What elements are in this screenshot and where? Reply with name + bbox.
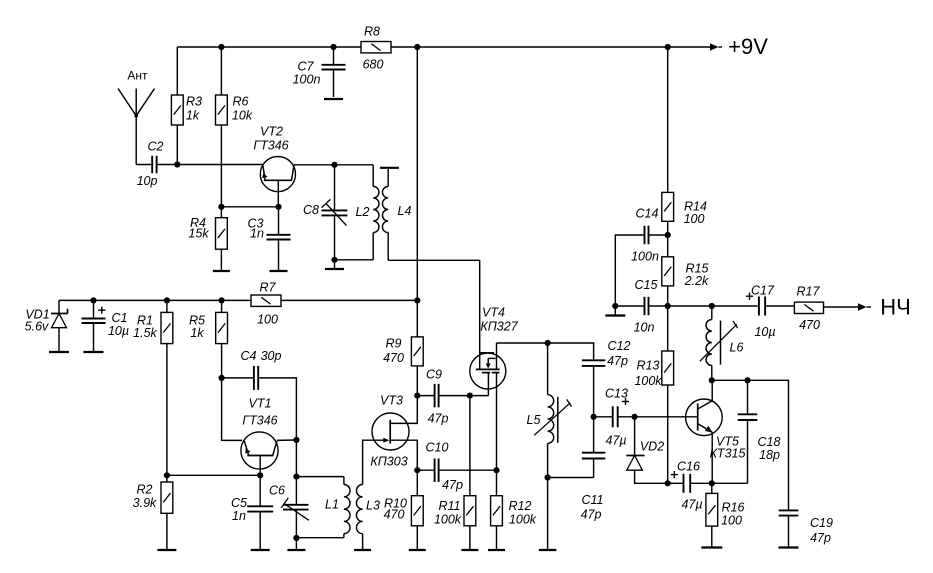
svg-text:L5: L5 (527, 413, 541, 427)
capacitor C5 1n (231, 475, 273, 550)
svg-text:C17: C17 (751, 284, 775, 298)
svg-text:R16: R16 (722, 501, 745, 515)
svg-text:1.5k: 1.5k (133, 326, 157, 340)
node: bus / R6 (218, 44, 224, 50)
node: rail / C1 (90, 297, 96, 303)
transistor VT2 ГТ346 (253, 125, 295, 207)
ground (C8/L2) (325, 260, 344, 269)
svg-text:47p: 47p (581, 508, 602, 522)
svg-text:VT4: VT4 (482, 306, 505, 320)
svg-text:47µ: 47µ (605, 434, 626, 448)
svg-text:470: 470 (799, 318, 820, 332)
svg-text:VT2: VT2 (260, 125, 283, 139)
svg-text:R13: R13 (637, 359, 660, 373)
svg-text:100: 100 (721, 514, 742, 528)
wire C11 bottom to L5 (548, 477, 594, 479)
svg-text:L6: L6 (730, 341, 744, 355)
capacitor C15 10n (615, 278, 667, 335)
svg-text:C2: C2 (148, 140, 164, 154)
node: C14 leg / C15 / ground (612, 303, 618, 309)
wire regulated rail (59, 299, 251, 301)
capacitor C10 47p (417, 441, 496, 493)
svg-text:1n: 1n (250, 227, 264, 241)
svg-text:VT3: VT3 (380, 394, 403, 408)
wire L5 to ground (547, 478, 549, 551)
svg-text:C10: C10 (426, 441, 449, 455)
node: R5 / C4 / VT1 emitter (219, 375, 225, 381)
svg-text:КТ315: КТ315 (710, 447, 746, 461)
resistor R9 470 (383, 337, 423, 396)
wire collector row (712, 380, 789, 510)
node: R15 / R13 / output row (665, 303, 671, 309)
svg-text:1k: 1k (186, 109, 200, 123)
node: VT3 source / C10 / R10 (414, 467, 420, 473)
ground (L5) (539, 549, 557, 551)
node: R7 / branch (414, 297, 420, 303)
node: C12 / C11 / C13 (591, 414, 597, 420)
ground (C1) (84, 351, 104, 353)
capacitor C1 10µ (82, 300, 130, 352)
wire L3 to VT3 gate (363, 440, 385, 484)
svg-text:C6: C6 (269, 484, 285, 498)
svg-text:C18: C18 (758, 435, 781, 449)
node: VD2 / R13 / C16 (665, 480, 671, 486)
wire tank to L1 top (296, 476, 344, 478)
ground (C15) (605, 306, 625, 316)
ground (R10) (409, 549, 426, 551)
node: R6 / R4 / wire (218, 204, 224, 210)
ground (C7) (324, 98, 343, 100)
wire L1 bottom (296, 537, 344, 539)
node: bus / R14 branch (665, 44, 671, 50)
resistor R4 15k (188, 207, 227, 271)
wire collector to tank top (295, 440, 297, 477)
node: C13 / VD2 / VT5 base (632, 414, 638, 420)
wire +9V bus right segment (391, 46, 710, 48)
resistor R2 3.9k (133, 475, 173, 550)
ground (VD1) (49, 351, 69, 353)
transistor VT1 ГТ346 (241, 397, 278, 476)
node: R9 / C9 / VT3 drain (414, 393, 420, 399)
svg-text:R11: R11 (438, 499, 460, 513)
node: row / L6 (709, 303, 715, 309)
resistor R16 100 (706, 483, 745, 547)
wire L4 to VT4 gate1 (388, 259, 480, 261)
wire base row (167, 474, 260, 476)
svg-text:Ант: Ант (127, 69, 148, 83)
svg-text:R12: R12 (509, 499, 532, 513)
svg-text:C14: C14 (636, 207, 659, 221)
wire C4 to VT1 collector (258, 378, 296, 440)
wire output row (668, 305, 758, 307)
svg-text:47p: 47p (810, 531, 831, 545)
capacitor C16 47µ (668, 460, 712, 512)
antenna Ант (118, 69, 155, 165)
svg-text:C8: C8 (303, 203, 319, 217)
node: VT1 base / C5 (257, 472, 263, 478)
svg-text:VT1: VT1 (249, 397, 272, 411)
svg-text:18p: 18p (759, 448, 780, 462)
svg-text:L4: L4 (398, 204, 412, 218)
svg-text:C5: C5 (231, 496, 247, 510)
svg-text:10µ: 10µ (754, 325, 775, 339)
svg-text:C15: C15 (635, 278, 658, 292)
resistor R14 100 (662, 47, 707, 235)
wire L2 top lead (372, 165, 374, 187)
zener diode VD1 5.6v (25, 300, 68, 352)
node: collector / C8 (331, 162, 337, 168)
svg-text:R2: R2 (137, 483, 153, 497)
node: C9 / VT4 source / R11 (467, 393, 473, 399)
svg-text:C11: C11 (581, 493, 603, 507)
wire R17 to output arrow (824, 306, 859, 308)
diode VD2 (626, 417, 667, 484)
node: VT5 emitter / C16 / R16 (709, 480, 715, 486)
resistor R7 100 (251, 281, 281, 327)
svg-text:47p: 47p (442, 478, 463, 492)
svg-text:47p: 47p (607, 354, 628, 368)
svg-text:C7: C7 (298, 60, 315, 74)
svg-text:ГТ346: ГТ346 (253, 139, 288, 153)
wire C2 to VT2 emitter (157, 164, 263, 166)
capacitor C7 100n (293, 47, 346, 97)
node: L5 bottom / C11 (545, 474, 551, 480)
inductor L1 (325, 477, 350, 538)
wire L2 bottom to C8 (335, 259, 374, 261)
wire VT2 collector to tank (294, 164, 373, 166)
inductor L2 (356, 186, 379, 259)
variable capacitor C6 (269, 477, 309, 538)
svg-text:10µ: 10µ (108, 324, 129, 338)
inductor L6 (700, 306, 744, 380)
resistor R15 2.2k (662, 235, 709, 306)
node: tank top / L5 (545, 340, 551, 346)
svg-text:C16: C16 (677, 460, 700, 474)
resistor R12 100k (491, 470, 537, 550)
ground (R16) (701, 546, 722, 548)
svg-text:КП303: КП303 (370, 455, 407, 469)
node: tank top (293, 474, 299, 480)
svg-text:5.6v: 5.6v (25, 320, 49, 334)
resistor R11 100k (434, 396, 476, 550)
svg-text:47p: 47p (428, 412, 449, 426)
wire R6/R4 node to C3/base node (221, 206, 278, 208)
node: C10 / R12 / VT4 gate2 (493, 467, 499, 473)
capacitor C18 18p (738, 380, 781, 483)
capacitor C19 47p (779, 510, 833, 547)
svg-text:C4: C4 (241, 349, 257, 363)
inductor L3 (356, 485, 380, 551)
resistor R5 1k (189, 300, 227, 378)
resistor R8 680 (361, 25, 391, 72)
svg-text:100n: 100n (631, 250, 659, 264)
wire C13 to VT5 base (619, 416, 698, 418)
node: tank bottom (293, 535, 299, 541)
ground (R12) (488, 549, 505, 551)
wire +9V bus left segment (177, 46, 361, 48)
svg-text:470: 470 (384, 508, 405, 522)
resistor R13 100k (634, 306, 673, 483)
ground (R4) (213, 270, 230, 272)
svg-text:10p: 10p (137, 174, 158, 188)
wire C14 left leg (615, 235, 644, 306)
svg-text:C12: C12 (608, 339, 631, 353)
inductor L5 (527, 343, 572, 478)
capacitor C3 1n (248, 207, 291, 271)
НЧ output terminal arrow and label (858, 295, 911, 320)
inductor L4 (380, 168, 412, 260)
wire emitter to C18 (712, 482, 748, 484)
svg-text:47µ: 47µ (681, 498, 702, 512)
svg-text:C13: C13 (605, 387, 628, 401)
capacitor C4 30p (222, 349, 282, 390)
node: C8 bottom / L2 bottom (331, 257, 337, 263)
svg-text:10k: 10k (232, 109, 253, 123)
svg-text:R7: R7 (260, 281, 277, 295)
ground (tank) (287, 538, 305, 550)
svg-text:R17: R17 (797, 285, 821, 299)
capacitor C12 47p (582, 339, 631, 417)
ground (C5) (251, 549, 270, 551)
resistor R3 1k (171, 47, 202, 165)
wire VT4 drain to tank top (497, 343, 594, 360)
svg-text:L3: L3 (366, 499, 380, 513)
ground (R2) (157, 549, 176, 551)
svg-text:VD2: VD2 (640, 440, 664, 454)
svg-text:C19: C19 (810, 516, 833, 530)
node: collector / C4 / tank (293, 437, 299, 443)
capacitor C14 100n (631, 207, 668, 264)
ground (L3) (354, 549, 371, 551)
resistor R1 1.5k (133, 300, 173, 475)
svg-text:100: 100 (684, 212, 705, 226)
capacitor C2 10p (136, 140, 163, 189)
capacitor C9 47p (417, 368, 470, 426)
svg-text:1n: 1n (232, 509, 246, 523)
transistor VT4 КП327 (470, 260, 519, 470)
svg-text:+9V: +9V (728, 34, 768, 59)
wire +9V branch down to R9 (416, 47, 418, 337)
node: rail / R5 (219, 297, 225, 303)
node: bus / branch to R7-R9 (414, 44, 420, 50)
svg-text:3.9k: 3.9k (133, 496, 157, 510)
svg-text:ГТ346: ГТ346 (242, 414, 277, 428)
svg-text:КП327: КП327 (480, 320, 518, 334)
node: rail / R1 (164, 297, 170, 303)
svg-text:L1: L1 (325, 498, 339, 512)
node: R1 / R2 / base row (164, 472, 170, 478)
svg-text:2.2k: 2.2k (684, 274, 709, 288)
node: VT2 base / C3 (275, 204, 281, 210)
transistor VT3 КП303 (370, 394, 417, 471)
ground (C19) (779, 546, 799, 548)
svg-text:15k: 15k (188, 227, 209, 241)
svg-text:100k: 100k (509, 513, 537, 527)
svg-text:R3: R3 (186, 95, 202, 109)
svg-text:100k: 100k (634, 374, 662, 388)
wire emitter link (222, 378, 242, 441)
svg-text:C1: C1 (112, 311, 128, 325)
svg-text:L2: L2 (356, 205, 370, 219)
svg-text:10n: 10n (634, 321, 655, 335)
svg-text:100n: 100n (293, 73, 321, 87)
svg-text:100k: 100k (434, 513, 462, 527)
resistor R17 470 (794, 285, 823, 333)
node: bus / C7 (330, 44, 336, 50)
node: collector row / C18 (744, 377, 750, 383)
svg-text:R9: R9 (386, 337, 402, 351)
node: L6 / VT5 collector (709, 377, 715, 383)
svg-text:470: 470 (383, 351, 404, 365)
svg-text:C9: C9 (426, 368, 442, 382)
resistor R10 470 (384, 470, 424, 550)
variable capacitor C8 (303, 165, 347, 260)
node: R14 / R15 / C14 (665, 232, 671, 238)
node: C2 / R3 (174, 161, 180, 167)
svg-text:R6: R6 (233, 95, 249, 109)
wire VT1 collector (277, 439, 297, 441)
wire R7 to +9V branch (281, 299, 417, 301)
capacitor C11 47p (581, 417, 606, 522)
svg-text:30p: 30p (261, 349, 282, 363)
svg-text:НЧ: НЧ (880, 295, 911, 320)
capacitor C13 47µ (594, 387, 630, 448)
svg-text:100: 100 (257, 313, 278, 327)
ground (C3) (270, 270, 288, 272)
+9V supply terminal arrow and label (710, 34, 768, 59)
ground (R11) (461, 549, 478, 551)
svg-text:R8: R8 (364, 25, 380, 39)
transistor VT5 КТ315 (686, 380, 746, 483)
capacitor C17 10µ (746, 284, 795, 340)
resistor R6 10k (216, 47, 253, 207)
svg-text:680: 680 (363, 58, 384, 72)
svg-text:1k: 1k (190, 326, 204, 340)
